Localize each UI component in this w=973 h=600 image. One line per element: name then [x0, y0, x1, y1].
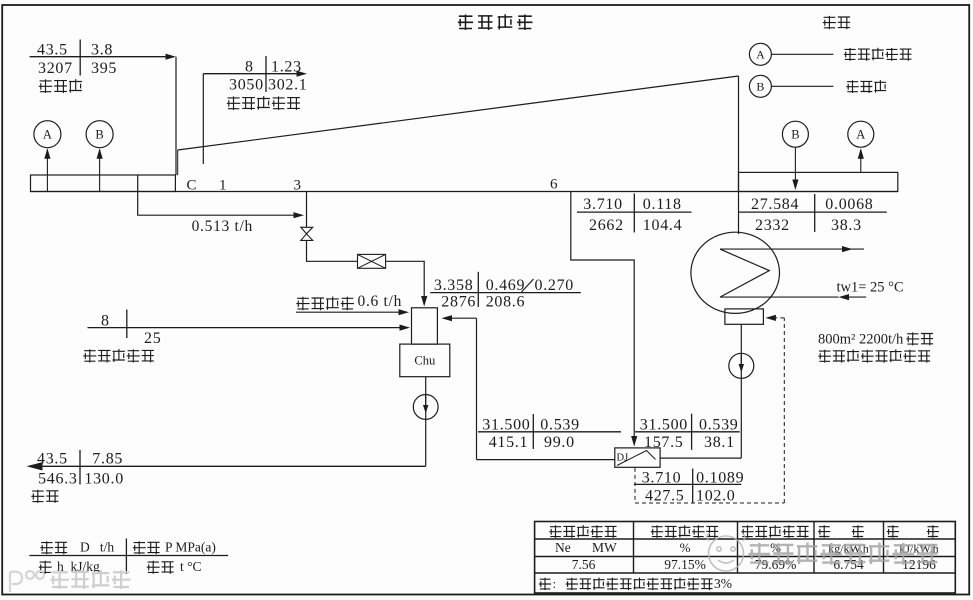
legend B line [771, 85, 833, 87]
legend symbol B circle [749, 75, 771, 97]
hotwell box [725, 309, 764, 324]
legend label 汽封加热器 [844, 48, 912, 61]
DJ drain dashed wire to hotwell [634, 468, 636, 503]
air preheater extraction tap wire [202, 74, 204, 164]
watermark bottom-left text 大数据境 [50, 570, 130, 589]
svg-text:Ne: Ne [555, 540, 571, 555]
svg-text:3.710: 3.710 [642, 470, 682, 487]
main steam downcomer wire [175, 57, 177, 176]
svg-text:1: 1 [219, 178, 227, 194]
svg-text:0.0068: 0.0068 [825, 196, 873, 213]
condenser spec label 不锈钢光管冷凝器 [818, 349, 930, 362]
label 空预器回水 [83, 349, 154, 363]
gland steam collector box [412, 308, 438, 344]
results table frame [535, 522, 956, 594]
watermark text 泗洪高能垃圾发电 [748, 543, 937, 565]
pressure box B circle right [782, 121, 808, 147]
svg-text:C: C [187, 178, 197, 194]
svg-text:43.5: 43.5 [37, 451, 68, 468]
valve V1 [301, 227, 313, 234]
feedwater line [37, 465, 426, 467]
feed pump P1 [413, 395, 438, 420]
svg-text:A: A [756, 48, 765, 62]
svg-text:31.500: 31.500 [482, 416, 530, 433]
svg-text:79.69%: 79.69% [755, 557, 797, 572]
turbine exhaust vertical [738, 76, 740, 234]
svg-text:2876: 2876 [441, 294, 476, 311]
svg-text:27.584: 27.584 [751, 196, 799, 213]
svg-text:3.710: 3.710 [583, 196, 623, 213]
pressure box B circle left [86, 121, 113, 148]
deaerator Chu box [400, 344, 450, 377]
svg-text:102.0: 102.0 [696, 488, 736, 505]
legend label 均压箱 [846, 80, 886, 93]
svg-text:3.8: 3.8 [91, 42, 113, 59]
feedwater cross 43.5/7.85 546.3/130.0 [79, 450, 81, 485]
turbine HP gland box [31, 175, 176, 192]
label 新蒸汽 [39, 79, 82, 93]
DJ gland condenser box [615, 448, 660, 467]
svg-text:157.5: 157.5 [644, 434, 684, 451]
svg-text:0.118: 0.118 [643, 196, 682, 213]
svg-text:3%: 3% [714, 576, 732, 591]
extraction 6 cross 3.710/0.118 2662/104.4 [577, 211, 692, 213]
wire up to A [860, 150, 862, 173]
condenser shell [691, 232, 780, 313]
watermark face logo [707, 533, 745, 571]
svg-text:B: B [756, 80, 764, 94]
air preheater extraction cross 8/1.23 3050/302.1 [203, 73, 298, 75]
svg-text:130.0: 130.0 [84, 471, 124, 488]
svg-text:25: 25 [144, 330, 161, 347]
svg-text:6: 6 [550, 177, 558, 193]
restrictor orifice [358, 254, 386, 268]
cooling water outlet wire [720, 248, 864, 250]
legend heading 符号 [823, 16, 850, 29]
table header 热耗 [887, 525, 899, 537]
condensate pump P2 [729, 353, 754, 378]
svg-text:DJ: DJ [617, 453, 629, 464]
gland steam cross 3.358/0.469-0.270 2876/208.6 [430, 292, 581, 294]
svg-text:427.5: 427.5 [645, 488, 685, 505]
wire to A [46, 150, 48, 192]
title 额定工况 [458, 14, 533, 30]
svg-text:0.270: 0.270 [535, 277, 575, 294]
svg-text:104.4: 104.4 [643, 217, 683, 234]
svg-text:43.5: 43.5 [37, 42, 68, 59]
turbine casing left edge [177, 150, 179, 175]
condensate wire to DJ heater [660, 457, 741, 459]
table header 发电机功率 [549, 525, 616, 538]
svg-text:302.1: 302.1 [268, 77, 308, 94]
DJ drain cross 3.710/0.1089 427.5/102.0 [634, 483, 741, 485]
wire Chu to pump [425, 377, 427, 467]
wire restrictor to gland collector [386, 261, 425, 300]
svg-text:8: 8 [245, 59, 254, 76]
svg-text:A: A [43, 128, 52, 142]
svg-text::: : [553, 576, 557, 591]
condenser tube zigzag [720, 249, 769, 297]
svg-text:2332: 2332 [755, 217, 790, 234]
table header 发电机效率 [651, 525, 718, 538]
svg-text:8: 8 [101, 313, 110, 330]
svg-text:B: B [95, 128, 103, 142]
svg-text:3050: 3050 [229, 77, 264, 94]
turbine gland box divider [137, 175, 139, 192]
svg-text:P MPa(a): P MPa(a) [165, 540, 216, 555]
return wire into collector right side [444, 317, 477, 319]
gland heater A circle right [848, 121, 874, 147]
main steam cross 43.5/3.8 3207/395 [30, 56, 167, 58]
svg-text:208.6: 208.6 [486, 294, 526, 311]
svg-text:0.1089: 0.1089 [696, 470, 744, 487]
left condensate cross 31.500/0.539 415.1/99.0 [478, 431, 621, 433]
svg-text:0.539: 0.539 [540, 416, 580, 433]
riser wire from feed line [476, 318, 478, 459]
exhaust cross 27.584/0.0068 2332/38.3 [738, 211, 887, 213]
svg-text:7.56: 7.56 [572, 557, 596, 572]
valve stem leak arrow wire [296, 311, 400, 313]
svg-text:38.1: 38.1 [704, 434, 735, 451]
turbine shaft line [31, 191, 898, 193]
extraction 3 downcomer wire [306, 192, 308, 228]
legend cross 流量/压力 焓/温度 [29, 555, 228, 557]
table header 汽机内效率 [741, 525, 808, 538]
svg-text:0.469: 0.469 [486, 277, 526, 294]
wire valve to restrictor [307, 240, 358, 261]
svg-text:t °C: t °C [180, 559, 202, 574]
cooling water inlet wire [841, 296, 866, 298]
wire to B [99, 150, 101, 192]
wire hotwell to condensate pump [740, 324, 742, 458]
svg-text:99.0: 99.0 [544, 434, 575, 451]
extraction 6 wire to DJ [571, 192, 634, 442]
svg-text:A: A [856, 128, 865, 142]
turbine right gland box [739, 172, 898, 191]
watermark bottom-left logo [10, 571, 44, 592]
turbine casing diagonal [178, 76, 739, 150]
gland leak 0.513 t/h wire [138, 192, 295, 216]
label 空预器抽汽 [227, 96, 300, 110]
svg-text:%: % [680, 540, 691, 555]
label 给水 [31, 490, 58, 503]
table header 汽耗 [818, 525, 830, 537]
air preheater return cross 8/25 [88, 327, 402, 329]
svg-text:3.358: 3.358 [434, 277, 474, 294]
svg-text:415.1: 415.1 [489, 434, 529, 451]
legend A line [771, 53, 833, 55]
label 阀杆漏汽 0.6 t/h [296, 297, 354, 311]
svg-text:Chu: Chu [414, 354, 436, 368]
svg-text:395: 395 [91, 60, 117, 77]
svg-text:0.513 t/h: 0.513 t/h [192, 218, 253, 235]
svg-text:D t/h: D t/h [80, 540, 114, 555]
legend symbol A circle [749, 43, 771, 65]
svg-text:0.539: 0.539 [699, 416, 739, 433]
svg-text:MW: MW [592, 540, 617, 555]
svg-text:97.15%: 97.15% [664, 557, 706, 572]
svg-text:3: 3 [294, 178, 302, 194]
wire from B down into turbine [794, 147, 796, 188]
svg-text:31.500: 31.500 [640, 416, 688, 433]
DJ outlet wire [477, 459, 615, 461]
svg-text:1.23: 1.23 [271, 59, 302, 76]
table note 注:计算值未计入工厂保证值3% [539, 578, 551, 590]
svg-text:0.6 t/h: 0.6 t/h [358, 293, 403, 310]
svg-text:546.3: 546.3 [38, 471, 78, 488]
svg-text:800m² 2200t/h: 800m² 2200t/h [818, 332, 904, 348]
svg-text:38.3: 38.3 [831, 217, 862, 234]
svg-text:tw1= 25 °C: tw1= 25 °C [837, 280, 904, 296]
svg-text:3207: 3207 [38, 60, 73, 77]
right condensate cross 31.500/0.539 157.5/38.1 [635, 431, 740, 433]
svg-text:B: B [791, 128, 799, 142]
svg-text:7.85: 7.85 [92, 451, 123, 468]
gland heater A circle left [34, 121, 61, 148]
svg-text:2662: 2662 [589, 217, 624, 234]
